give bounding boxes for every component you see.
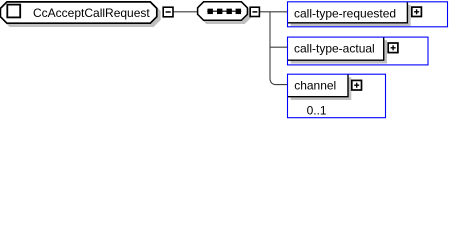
sequence icon: line with four squares (207, 9, 241, 14)
occurrence label 0..1 for channel (307, 104, 327, 118)
svg-text:call-type-requested: call-type-requested (294, 6, 396, 20)
child frame channel (blue outer box) (288, 74, 386, 118)
wire from root collapse button to sequence (174, 11, 198, 13)
child frame call-type-requested (blue outer box) (288, 2, 448, 27)
element channel (box with shadow inside blue frame) (288, 74, 352, 100)
expand button (plus) for channel (352, 80, 362, 90)
svg-text:CcAcceptCallRequest: CcAcceptCallRequest (33, 6, 150, 20)
element icon square inside root box (7, 5, 20, 18)
element call-type-requested (box with shadow inside blue frame) (288, 2, 411, 26)
svg-text:0..1: 0..1 (307, 104, 327, 118)
wire branch to call-type-actual (270, 46, 288, 48)
expand button (plus) for call-type-actual (388, 43, 398, 53)
collapse button (minus) after sequence (250, 7, 259, 16)
child frame call-type-actual (blue outer box) (288, 37, 429, 65)
sequence compositor (octagon with shadow) (198, 2, 251, 24)
svg-text:channel: channel (294, 79, 336, 93)
expand button (plus) for call-type-requested (412, 7, 422, 16)
element CcAcceptCallRequest (root octagon with shadow) (0, 2, 159, 26)
wire from sequence collapse button to first child (260, 11, 288, 13)
element call-type-actual (box with shadow inside blue frame) (288, 37, 388, 63)
wire vertical trunk with curve to channel (270, 12, 288, 85)
svg-text:call-type-actual: call-type-actual (294, 42, 375, 56)
collapse button (minus) after root element (163, 7, 173, 17)
